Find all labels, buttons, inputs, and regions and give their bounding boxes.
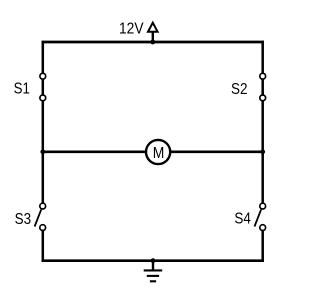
svg-text:S3: S3: [15, 211, 32, 228]
svg-text:S4: S4: [234, 211, 251, 228]
svg-text:S1: S1: [14, 81, 30, 98]
svg-text:12V: 12V: [119, 20, 144, 37]
svg-text:M: M: [153, 145, 165, 162]
svg-text:S2: S2: [231, 81, 248, 98]
